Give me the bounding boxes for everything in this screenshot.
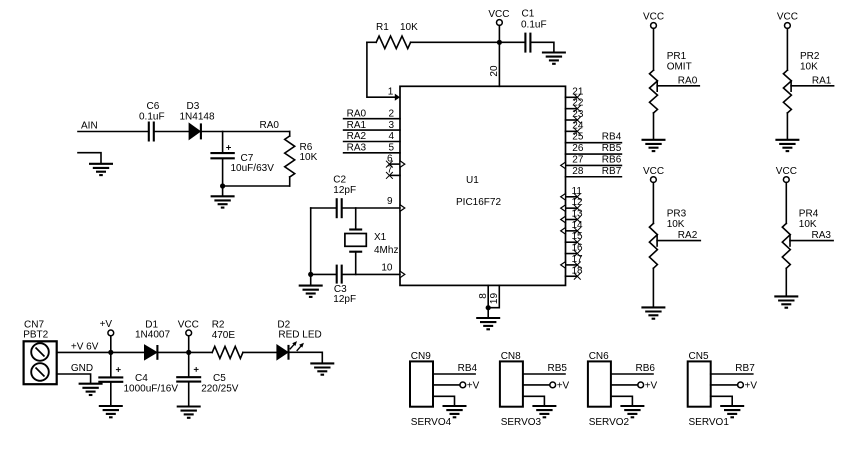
junction VCC/R1/C1 xyxy=(497,40,502,45)
svg-text:X1: X1 xyxy=(374,232,387,243)
svg-text:CN6: CN6 xyxy=(589,351,609,362)
svg-text:10K: 10K xyxy=(800,61,818,72)
LED D2 xyxy=(277,320,322,360)
svg-text:12: 12 xyxy=(572,197,584,208)
wire CN9 net RB4 xyxy=(433,363,477,374)
U1 pin 13 (NC) xyxy=(561,209,583,223)
power VCC (PR4) xyxy=(776,166,797,224)
CN7 screw terminal 1 xyxy=(31,343,49,361)
op-amp U1 body (IC PIC16F72) xyxy=(400,86,566,285)
trimmer PR1 xyxy=(650,51,692,113)
capacitor C7 xyxy=(210,145,274,174)
resistor R1 xyxy=(367,22,418,49)
svg-text:C5: C5 xyxy=(213,373,226,384)
wire PR2 wiper net RA1 xyxy=(791,75,834,86)
connector CN6 SERVO2 xyxy=(588,351,630,428)
svg-text:24: 24 xyxy=(572,120,584,131)
wire RA2 to pin 4 xyxy=(344,131,400,142)
wire RA1 to pin 3 xyxy=(344,120,400,131)
svg-text:17: 17 xyxy=(572,254,584,265)
trimmer PR2 xyxy=(783,51,819,113)
svg-text:3: 3 xyxy=(388,120,394,131)
svg-text:10uF/63V: 10uF/63V xyxy=(231,163,275,174)
svg-text:CN8: CN8 xyxy=(501,351,521,362)
svg-text:1: 1 xyxy=(388,87,394,98)
wire CN8 to ground xyxy=(523,396,545,405)
junction C7/R6/gnd xyxy=(220,183,225,188)
wire pin 27 net RB6 xyxy=(561,154,622,168)
wire CN8 +V xyxy=(523,380,570,391)
svg-text:15: 15 xyxy=(572,231,584,242)
wire pin 28 net RB7 xyxy=(566,166,622,177)
svg-text:4: 4 xyxy=(388,131,394,142)
svg-text:RB7: RB7 xyxy=(735,363,755,374)
connector CN8 SERVO3 xyxy=(500,351,542,428)
svg-text:0.1uF: 0.1uF xyxy=(139,112,165,123)
trimmer PR4 xyxy=(782,209,818,269)
ground (C7) xyxy=(211,186,235,208)
svg-text:RB4: RB4 xyxy=(602,132,622,143)
svg-text:10: 10 xyxy=(381,263,393,274)
wire AIN to C6 xyxy=(78,131,148,133)
svg-text:23: 23 xyxy=(572,109,584,120)
wire CN5 to ground xyxy=(711,396,733,405)
svg-text:VCC: VCC xyxy=(776,166,797,177)
wire C1 to ground xyxy=(531,42,554,52)
svg-text:SERVO2: SERVO2 xyxy=(589,417,630,428)
connector CN5 SERVO1 xyxy=(688,351,730,428)
U1 pin 6 (NC) xyxy=(386,153,405,167)
svg-text:RA1: RA1 xyxy=(812,75,832,86)
capacitor C1 xyxy=(521,8,547,52)
svg-text:220/25V: 220/25V xyxy=(201,383,239,394)
svg-text:PR4: PR4 xyxy=(799,209,819,220)
resistor R6 xyxy=(285,132,318,187)
U1 pin 18 (NC) xyxy=(566,265,584,279)
svg-text:RB5: RB5 xyxy=(602,143,622,154)
svg-text:SERVO1: SERVO1 xyxy=(689,417,730,428)
wire crystal top xyxy=(355,208,357,230)
svg-text:2: 2 xyxy=(388,108,394,119)
svg-text:1N4148: 1N4148 xyxy=(180,112,215,123)
connector CN9 SERVO4 xyxy=(410,351,452,428)
svg-text:RA0: RA0 xyxy=(260,120,280,131)
wire CN9 to ground xyxy=(433,396,455,405)
ground (C4) xyxy=(99,406,123,417)
power VCC (PR1) xyxy=(643,11,664,70)
svg-text:19: 19 xyxy=(489,293,500,305)
wire PR1 to ground xyxy=(653,113,655,139)
ground (CN9) xyxy=(443,406,467,417)
svg-text:+V: +V xyxy=(100,319,113,330)
svg-text:+V: +V xyxy=(745,380,758,391)
wire C5 to ground xyxy=(188,382,190,407)
ground (C5) xyxy=(177,407,201,418)
svg-text:9: 9 xyxy=(387,196,393,207)
wire C2 to pin 9 xyxy=(343,207,400,209)
wire +V node to C4 xyxy=(110,352,112,377)
wire C7 to junction xyxy=(222,158,224,186)
svg-text:RA0: RA0 xyxy=(347,108,367,119)
svg-text:21: 21 xyxy=(572,86,584,97)
ground (PR4) xyxy=(774,296,798,307)
wire CN6 +V xyxy=(611,380,658,391)
wire CN9 +V xyxy=(433,380,480,391)
U1 pin 23 (NC) xyxy=(566,109,584,123)
svg-text:RA1: RA1 xyxy=(347,120,367,131)
wire CN6 net RB6 xyxy=(611,363,655,374)
svg-text:VCC: VCC xyxy=(643,166,664,177)
wire to C7 xyxy=(222,132,224,153)
wire PR3 wiper net RA2 xyxy=(657,230,700,241)
wire CN8 net RB5 xyxy=(523,363,567,374)
power VCC (supply) xyxy=(178,320,199,353)
wire D3 to R6 / node RA0 xyxy=(201,120,290,132)
svg-text:14: 14 xyxy=(572,220,584,231)
wire PR4 wiper net RA3 xyxy=(790,230,833,241)
ground (CN7) xyxy=(79,384,103,395)
svg-text:RA3: RA3 xyxy=(347,143,367,154)
svg-text:VCC: VCC xyxy=(488,9,509,20)
svg-text:RED LED: RED LED xyxy=(278,330,321,341)
svg-text:U1: U1 xyxy=(466,175,479,186)
wire D2 to ground xyxy=(289,352,323,363)
wire PR2 to ground xyxy=(786,113,788,139)
U1 pin 10 arrow xyxy=(381,263,404,278)
svg-text:26: 26 xyxy=(572,143,584,154)
power +V xyxy=(100,319,114,352)
U1 pin 14 (NC) xyxy=(561,220,583,234)
wire C3 left to bus xyxy=(311,273,336,275)
U1 pin 22 (NC) xyxy=(566,98,584,112)
svg-text:OMIT: OMIT xyxy=(667,61,692,72)
svg-text:PBT2: PBT2 xyxy=(23,330,48,341)
ground (CN5) xyxy=(720,406,744,417)
wire VCC node to C5 xyxy=(188,352,190,377)
svg-text:18: 18 xyxy=(572,265,584,276)
U1 pin 1 xyxy=(388,87,400,101)
wire C2 left to bus xyxy=(311,207,336,209)
svg-text:SERVO3: SERVO3 xyxy=(501,417,542,428)
wire VCC node to pin 20 xyxy=(498,42,500,86)
svg-text:RB5: RB5 xyxy=(548,363,568,374)
U1 pin 12 (NC) xyxy=(561,197,583,211)
svg-text:20: 20 xyxy=(489,65,500,77)
svg-text:12pF: 12pF xyxy=(333,185,356,196)
ground (CN6) xyxy=(620,406,644,417)
svg-text:VCC: VCC xyxy=(777,11,798,22)
wire D1 to VCC node xyxy=(157,351,212,353)
ground (CN8) xyxy=(532,406,556,417)
junction osc bus xyxy=(308,272,313,277)
svg-text:RA2: RA2 xyxy=(678,230,698,241)
wire junction to R6 bottom xyxy=(223,185,290,187)
svg-text:13: 13 xyxy=(572,209,584,220)
ground (D2) xyxy=(310,363,334,374)
wire pin 25 net RB4 xyxy=(566,132,622,143)
wire RA3 to pin 5 xyxy=(344,143,400,154)
svg-text:PIC16F72: PIC16F72 xyxy=(456,197,501,208)
wire PR4 to ground xyxy=(785,268,787,296)
power VCC (PR3) xyxy=(643,166,664,224)
wire R1 to pin 1 xyxy=(367,42,395,97)
junction +V/C4 xyxy=(108,350,113,355)
wire GND xyxy=(57,363,93,383)
crystal X1 xyxy=(345,230,399,256)
svg-text:GND: GND xyxy=(71,363,93,374)
wire U1 pin 19 xyxy=(488,285,500,307)
svg-text:RA0: RA0 xyxy=(678,75,698,86)
diode D1 xyxy=(135,319,170,360)
svg-text:12pF: 12pF xyxy=(333,294,356,305)
wire RA0 to pin 2 xyxy=(344,108,400,119)
capacitor C6 xyxy=(139,101,165,141)
svg-text:R6: R6 xyxy=(300,142,313,153)
wire crystal bottom xyxy=(355,252,357,275)
svg-text:CN9: CN9 xyxy=(411,351,431,362)
svg-text:C3: C3 xyxy=(334,284,347,295)
ground (C1) xyxy=(542,53,566,64)
svg-text:22: 22 xyxy=(572,98,584,109)
U1 pin 15 (NC) xyxy=(566,231,584,245)
wire U1 pin 8 xyxy=(478,285,489,307)
wire pin 26 net RB5 xyxy=(566,143,622,154)
wire CN5 net RB7 xyxy=(711,363,755,374)
svg-text:10K: 10K xyxy=(300,152,318,163)
capacitor C3 xyxy=(333,265,356,306)
svg-text:SERVO4: SERVO4 xyxy=(411,417,452,428)
svg-text:RB4: RB4 xyxy=(458,363,478,374)
junction VCC/C5 xyxy=(186,350,191,355)
svg-text:RA2: RA2 xyxy=(347,131,367,142)
svg-text:RB6: RB6 xyxy=(602,154,622,165)
svg-text:16: 16 xyxy=(572,243,584,254)
U1 pin 21 (NC) xyxy=(566,86,584,100)
svg-text:RA3: RA3 xyxy=(812,230,832,241)
svg-text:10K: 10K xyxy=(799,219,817,230)
svg-text:C1: C1 xyxy=(522,8,535,19)
svg-text:VCC: VCC xyxy=(178,320,199,331)
capacitor C2 xyxy=(333,175,356,219)
wire CN5 +V xyxy=(711,380,758,391)
svg-text:+V 6V: +V 6V xyxy=(71,341,99,352)
capacitor C4 xyxy=(98,367,178,394)
ground (AIN) xyxy=(78,153,113,175)
wire VCC node to C1 xyxy=(499,41,524,43)
wire +V 6V xyxy=(57,341,145,352)
svg-text:10K: 10K xyxy=(400,22,418,33)
wire CN6 to ground xyxy=(611,396,633,405)
svg-text:470E: 470E xyxy=(212,330,236,341)
wire C6 to D3 xyxy=(155,131,189,133)
svg-text:4Mhz: 4Mhz xyxy=(374,245,398,256)
svg-text:28: 28 xyxy=(572,166,584,177)
svg-text:PR3: PR3 xyxy=(667,209,687,220)
svg-text:CN5: CN5 xyxy=(689,351,709,362)
U1 pin 9 arrow xyxy=(387,196,405,211)
svg-text:25: 25 xyxy=(572,132,584,143)
power VCC (top) xyxy=(488,9,509,42)
svg-text:R1: R1 xyxy=(376,22,389,33)
svg-text:RB6: RB6 xyxy=(636,363,656,374)
power VCC (PR2) xyxy=(777,11,798,70)
svg-text:C6: C6 xyxy=(147,101,160,112)
svg-text:0.1uF: 0.1uF xyxy=(521,20,547,31)
diode D3 xyxy=(180,101,215,139)
svg-text:1000uF/16V: 1000uF/16V xyxy=(124,383,179,394)
svg-text:D3: D3 xyxy=(187,101,200,112)
wire PR3 to ground xyxy=(652,268,654,307)
svg-text:+V: +V xyxy=(467,380,480,391)
svg-text:VCC: VCC xyxy=(643,11,664,22)
ground (PR2) xyxy=(775,140,799,151)
wire C3 to pin 10 xyxy=(343,273,400,275)
U1 pin 24 (NC) xyxy=(566,120,584,134)
wire osc bus vertical xyxy=(310,208,312,274)
svg-text:10K: 10K xyxy=(667,219,685,230)
U1 pin 11 (NC) xyxy=(561,186,583,200)
capacitor C5 xyxy=(176,367,239,394)
svg-text:6: 6 xyxy=(387,153,393,164)
svg-text:+V: +V xyxy=(557,380,570,391)
svg-text:5: 5 xyxy=(388,143,394,154)
wire R1 to VCC node xyxy=(411,41,500,43)
svg-text:1N4007: 1N4007 xyxy=(135,330,170,341)
U1 pin 17 (NC) xyxy=(561,254,583,268)
svg-text:RB7: RB7 xyxy=(602,166,622,177)
ground (U1) xyxy=(476,308,500,330)
svg-text:7: 7 xyxy=(387,165,393,176)
U1 pin 16 (NC) xyxy=(566,243,584,257)
resistor R2 xyxy=(212,320,243,359)
svg-text:8: 8 xyxy=(478,293,489,299)
ground (oscillator) xyxy=(299,274,323,297)
wire C4 to ground xyxy=(110,382,112,406)
ground (PR1) xyxy=(642,140,666,151)
connector CN7 PBT2 xyxy=(23,319,56,384)
wire PR1 wiper net RA0 xyxy=(657,75,699,86)
wire R2 to D2 xyxy=(243,351,277,353)
CN7 screw terminal 2 xyxy=(31,363,49,381)
U1 pin 7 (NC) xyxy=(386,165,400,179)
svg-text:27: 27 xyxy=(572,154,584,165)
svg-text:+V: +V xyxy=(645,380,658,391)
svg-text:AIN: AIN xyxy=(81,121,98,132)
svg-text:11: 11 xyxy=(572,186,583,197)
junction pins 8/19 xyxy=(486,305,491,310)
trimmer PR3 xyxy=(649,209,686,269)
ground (PR3) xyxy=(641,307,665,318)
